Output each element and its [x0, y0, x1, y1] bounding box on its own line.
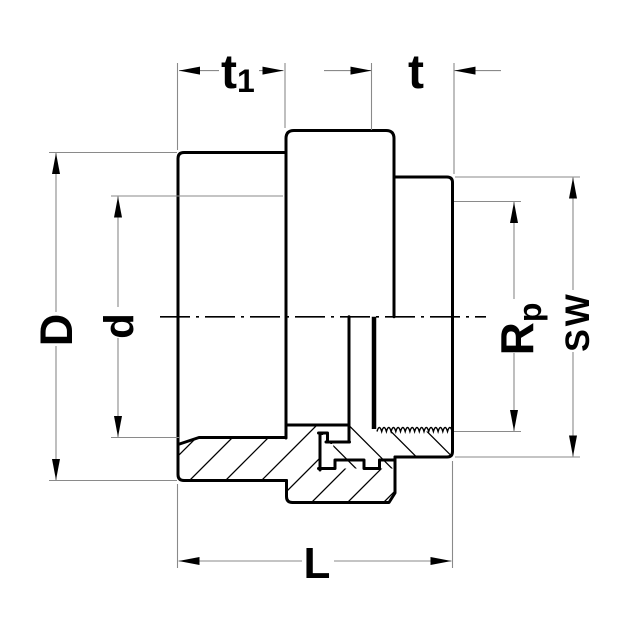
SW dimension line	[572, 178, 574, 457]
threaded end body (right) outline	[394, 177, 453, 457]
label gap SW	[558, 290, 600, 352]
t1 arrows	[179, 67, 200, 75]
interlock slot wall V3	[319, 433, 322, 470]
d extension lines	[111, 195, 283, 197]
centreline	[160, 316, 486, 318]
white interlock groove (unhatched slot)	[322, 435, 334, 467]
svg-text:SW: SW	[559, 291, 597, 352]
section hatching: plastic body, 45deg lines	[122, 404, 482, 512]
t arrows	[351, 67, 372, 75]
L arrows	[179, 557, 200, 565]
label gap t1	[219, 52, 259, 106]
L dimension line	[179, 560, 452, 562]
svg-text:t: t	[408, 46, 424, 99]
Rp extension lines	[454, 201, 521, 203]
interlock step H2/V2	[319, 433, 328, 442]
L extension lines	[177, 484, 179, 568]
label gap L	[302, 540, 334, 584]
t extension lines	[371, 63, 373, 130]
centre body top outline and faces	[286, 131, 394, 439]
Rp arrows	[510, 202, 518, 223]
label gap D	[40, 312, 72, 346]
t1 dimension line	[179, 70, 284, 72]
centre body bottom outline with chamfer	[287, 457, 396, 503]
insert end edge	[348, 317, 351, 442]
t1 extension lines	[177, 63, 179, 150]
socket body (left) outline	[178, 153, 287, 481]
Rp dimension line	[513, 202, 515, 431]
label gap d	[102, 307, 134, 338]
D arrows	[52, 153, 60, 174]
SW extension lines	[455, 176, 580, 178]
interlock flange line H1	[326, 441, 350, 444]
interlock crenellation	[319, 460, 396, 469]
dimension and extension lines	[49, 63, 580, 568]
SW arrows	[569, 178, 577, 199]
svg-text:L: L	[304, 539, 331, 588]
t dimension line	[324, 70, 372, 72]
D dimension line	[55, 153, 57, 480]
body outline	[178, 131, 453, 503]
svg-text:D: D	[31, 314, 82, 347]
d dimension line	[117, 197, 119, 438]
arrowheads	[52, 67, 577, 565]
section hatching: threaded insert, opposite 45deg lines	[260, 408, 508, 512]
svg-text:d: d	[96, 313, 143, 339]
d arrows	[114, 197, 122, 218]
female thread profile (serration)	[377, 428, 452, 432]
thread start face	[372, 317, 377, 429]
smooth bore line	[286, 424, 349, 427]
socket bore bottom with mouth chamfer	[178, 438, 286, 445]
label gap Rp	[495, 299, 551, 353]
D extension lines	[49, 152, 177, 154]
